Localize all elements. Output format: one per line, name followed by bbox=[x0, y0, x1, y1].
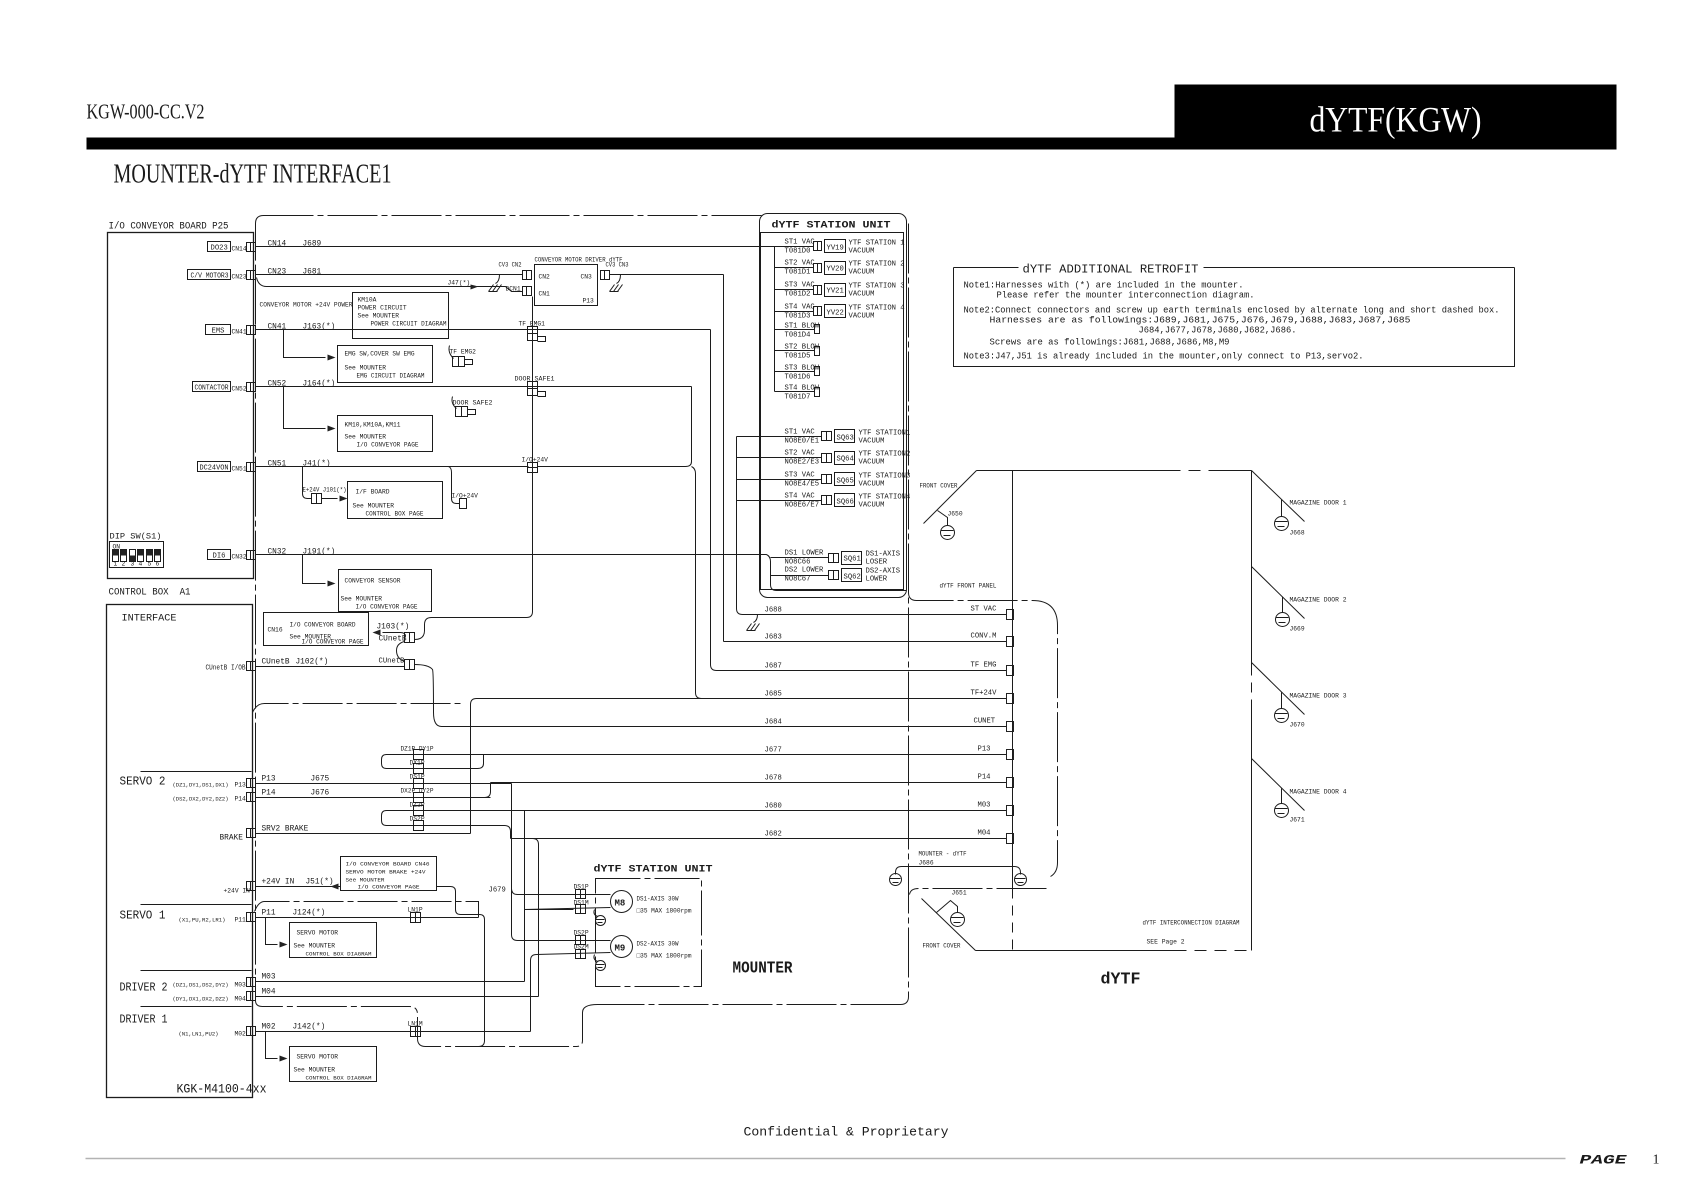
svg-text:4: 4 bbox=[139, 561, 143, 568]
svg-text:DOOR SAFE2: DOOR SAFE2 bbox=[453, 400, 493, 407]
row P14 servo2 bbox=[173, 790, 491, 803]
CN46 brake box bbox=[341, 857, 437, 891]
svg-text:CN23: CN23 bbox=[268, 269, 287, 277]
svg-text:dYTF STATION UNIT: dYTF STATION UNIT bbox=[594, 864, 713, 876]
svg-text:Note2:Connect connectors and s: Note2:Connect connectors and screw up ea… bbox=[964, 306, 1500, 316]
section separators bbox=[141, 771, 252, 773]
svg-text:I/O CONVEYOR PAGE: I/O CONVEYOR PAGE bbox=[357, 442, 419, 449]
svg-text:See MOUNTER: See MOUNTER bbox=[353, 503, 395, 510]
svg-text:(DZ1,DS1,DS2,DY2): (DZ1,DS1,DS2,DY2) bbox=[173, 982, 229, 989]
svg-text:YTF STATION4: YTF STATION4 bbox=[859, 494, 911, 502]
row DC24VON / CN51 bbox=[198, 461, 331, 473]
svg-text:SERVO MOTOR: SERVO MOTOR bbox=[297, 930, 339, 937]
wire DS1M bbox=[525, 908, 611, 910]
svg-text:CN32: CN32 bbox=[232, 554, 247, 561]
E+24V J101 branch bbox=[303, 467, 312, 499]
svg-text:J686: J686 bbox=[919, 860, 934, 867]
J41 open stub branch bbox=[449, 467, 460, 504]
svg-text:MAGAZINE DOOR 3: MAGAZINE DOOR 3 bbox=[1290, 693, 1347, 700]
svg-text:ST4 VAC: ST4 VAC bbox=[785, 304, 816, 312]
svg-text:ST3 VAC: ST3 VAC bbox=[785, 472, 816, 480]
BLOW rows bbox=[775, 247, 820, 402]
svg-text:NO8E2/E3: NO8E2/E3 bbox=[785, 459, 820, 467]
svg-text:MAGAZINE DOOR 2: MAGAZINE DOOR 2 bbox=[1290, 597, 1347, 604]
svg-text:P13: P13 bbox=[978, 746, 991, 754]
svg-text:CONVEYOR MOTOR +24V POWER: CONVEYOR MOTOR +24V POWER bbox=[260, 302, 353, 309]
wire DOOR SAFE loop bbox=[538, 387, 692, 467]
svg-text:NO8E0/E1: NO8E0/E1 bbox=[785, 438, 820, 446]
svg-text:T081D1: T081D1 bbox=[785, 269, 811, 277]
svg-text:J163(*): J163(*) bbox=[303, 324, 336, 332]
TF EMG2 stub bbox=[449, 346, 476, 367]
motor M9 DS2-AXIS bbox=[611, 936, 633, 958]
svg-text:YTF STATION 4: YTF STATION 4 bbox=[849, 305, 905, 313]
svg-text:CV3 CN3: CV3 CN3 bbox=[606, 262, 629, 269]
svg-text:M02: M02 bbox=[262, 1024, 276, 1032]
svg-text:M8: M8 bbox=[615, 899, 626, 909]
svg-text:J677: J677 bbox=[765, 747, 782, 755]
svg-text:□35 MAX 1800rpm: □35 MAX 1800rpm bbox=[637, 908, 692, 915]
svg-text:P13: P13 bbox=[583, 298, 595, 305]
svg-text:NO8C67: NO8C67 bbox=[785, 576, 811, 584]
svg-text:J684,J677,J678,J680,J682,J686.: J684,J677,J678,J680,J682,J686. bbox=[1139, 326, 1297, 336]
svg-text:YV19: YV19 bbox=[827, 245, 844, 253]
svg-text:EMS: EMS bbox=[212, 328, 225, 336]
svg-text:CONVEYOR SENSOR: CONVEYOR SENSOR bbox=[345, 578, 401, 585]
svg-text:MOUNTER-dYTF INTERFACE1: MOUNTER-dYTF INTERFACE1 bbox=[114, 159, 392, 189]
svg-text:P11: P11 bbox=[262, 910, 276, 918]
svg-text:VACUUM: VACUUM bbox=[859, 481, 885, 489]
wire J191 bbox=[256, 554, 767, 556]
svg-text:CONTROL BOX PAGE: CONTROL BOX PAGE bbox=[366, 511, 424, 518]
svg-text:M03: M03 bbox=[262, 974, 276, 982]
svg-text:M03: M03 bbox=[235, 982, 247, 989]
svg-text:I/O CONVEYOR PAGE: I/O CONVEYOR PAGE bbox=[358, 884, 420, 891]
svg-text:T081D7: T081D7 bbox=[785, 394, 811, 402]
svg-text:CN23: CN23 bbox=[232, 274, 247, 281]
svg-text:YV20: YV20 bbox=[827, 266, 844, 274]
svg-text:SERVO 2: SERVO 2 bbox=[120, 776, 166, 789]
svg-text:J142(*): J142(*) bbox=[293, 1024, 326, 1032]
svg-text:(DZ1,DY1,DS1,DX1): (DZ1,DY1,DS1,DX1) bbox=[173, 782, 229, 789]
svg-text:J680: J680 bbox=[765, 803, 782, 811]
svg-text:P14: P14 bbox=[262, 790, 276, 798]
svg-text:J681: J681 bbox=[303, 269, 322, 277]
svg-text:T081D3: T081D3 bbox=[785, 313, 811, 321]
svg-text:YV22: YV22 bbox=[827, 310, 844, 318]
SQ rows bbox=[785, 429, 911, 446]
svg-text:CN1: CN1 bbox=[539, 291, 551, 298]
board box bbox=[108, 221, 254, 579]
wire DS2P bbox=[518, 940, 611, 942]
svg-text:MAGAZINE DOOR 4: MAGAZINE DOOR 4 bbox=[1290, 789, 1347, 796]
svg-text:J682: J682 bbox=[765, 831, 782, 839]
riser P13->J679/DS2P bbox=[512, 784, 518, 941]
svg-text:J41(*): J41(*) bbox=[303, 461, 331, 469]
svg-text:I/F BOARD: I/F BOARD bbox=[356, 489, 390, 496]
svg-text:J102(*): J102(*) bbox=[296, 659, 329, 667]
svg-text:SQ65: SQ65 bbox=[837, 478, 854, 486]
wire J41 bbox=[256, 466, 529, 468]
svg-text:CUnetB I/OB: CUnetB I/OB bbox=[206, 665, 247, 673]
svg-text:TF EMG: TF EMG bbox=[971, 662, 997, 670]
svg-text:DO23: DO23 bbox=[211, 245, 228, 253]
svg-text:T081D5: T081D5 bbox=[785, 353, 811, 361]
row CONTACTOR / CN52 bbox=[193, 381, 336, 393]
svg-text:NO8C66: NO8C66 bbox=[785, 559, 811, 567]
svg-text:KM10,KM10A,KM11: KM10,KM10A,KM11 bbox=[345, 422, 401, 429]
svg-text:ST4 VAC: ST4 VAC bbox=[785, 493, 816, 501]
svg-text:INTERFACE: INTERFACE bbox=[122, 614, 177, 625]
svg-text:J51(*): J51(*) bbox=[306, 879, 334, 887]
svg-text:See MOUNTER: See MOUNTER bbox=[345, 365, 387, 372]
svg-text:MAGAZINE DOOR 1: MAGAZINE DOOR 1 bbox=[1290, 500, 1347, 507]
CONVEYOR SENSOR box bbox=[339, 570, 432, 612]
svg-text:+24V IN: +24V IN bbox=[262, 879, 295, 887]
svg-text:CN14: CN14 bbox=[268, 241, 287, 249]
svg-text:J124(*): J124(*) bbox=[293, 910, 326, 918]
svg-text:See MOUNTER: See MOUNTER bbox=[294, 1067, 336, 1074]
svg-text:T081D6: T081D6 bbox=[785, 374, 811, 382]
svg-text:DS2-AXIS: DS2-AXIS bbox=[866, 568, 901, 576]
svg-text:See MOUNTER: See MOUNTER bbox=[341, 596, 383, 603]
svg-text:EMG CIRCUIT DIAGRAM: EMG CIRCUIT DIAGRAM bbox=[357, 373, 425, 380]
svg-text:P14: P14 bbox=[235, 796, 247, 803]
svg-text:□35 MAX 1800rpm: □35 MAX 1800rpm bbox=[637, 953, 692, 960]
svg-text:P11: P11 bbox=[235, 917, 247, 924]
svg-text:KGK-M4100-4xx: KGK-M4100-4xx bbox=[177, 1082, 267, 1097]
EMS branch arrow bbox=[284, 330, 326, 358]
vertical bus CN1/TF EMG1/DOOR SAFE1/I⁄O+24V bbox=[532, 297, 534, 612]
svg-text:KGW-000-CC.V2: KGW-000-CC.V2 bbox=[87, 100, 205, 124]
svg-text:J164(*): J164(*) bbox=[303, 381, 336, 389]
svg-text:(N1,LN1,PU2): (N1,LN1,PU2) bbox=[179, 1031, 219, 1038]
magazine door 3 / earth J670 bbox=[1252, 663, 1347, 729]
svg-text:ST2 VAC: ST2 VAC bbox=[785, 260, 816, 268]
svg-text:J671: J671 bbox=[1290, 817, 1305, 824]
svg-text:J679: J679 bbox=[489, 887, 506, 895]
TF EMG1 bbox=[519, 321, 546, 342]
svg-text:DIP SW(S1): DIP SW(S1) bbox=[110, 534, 162, 542]
svg-text:Confidential & Proprietary: Confidential & Proprietary bbox=[744, 1125, 949, 1140]
svg-text:J47(*): J47(*) bbox=[448, 280, 471, 287]
contactor runs to J685 via x695 bbox=[692, 467, 702, 699]
I/O+24V connector on vertical bbox=[522, 457, 549, 473]
SERVO MOTOR box 1 bbox=[290, 923, 377, 958]
svg-text:M04: M04 bbox=[235, 996, 247, 1003]
svg-text:NO8E6/E7: NO8E6/E7 bbox=[785, 502, 820, 510]
svg-text:CN51: CN51 bbox=[232, 466, 247, 473]
svg-text:VACUUM: VACUUM bbox=[849, 291, 875, 299]
svg-text:LOWER: LOWER bbox=[866, 576, 888, 584]
J103 arrow wire + CUnetB connectors bbox=[373, 612, 533, 727]
J191 bus to DS rows bbox=[767, 555, 907, 591]
svg-text:YTF STATION3: YTF STATION3 bbox=[859, 473, 911, 481]
svg-text:P13: P13 bbox=[235, 782, 247, 789]
svg-text:CONTROL BOX DIAGRAM: CONTROL BOX DIAGRAM bbox=[306, 1075, 372, 1082]
svg-text:CN52: CN52 bbox=[232, 386, 247, 393]
svg-text:CONTROL BOX A1: CONTROL BOX A1 bbox=[109, 588, 191, 599]
magazine door 2 / earth J669 bbox=[1252, 567, 1347, 633]
svg-text:(X1,PU,R2,LR1): (X1,PU,R2,LR1) bbox=[179, 917, 226, 924]
svg-text:I/O CONVEYOR PAGE: I/O CONVEYOR PAGE bbox=[356, 604, 418, 611]
wire J689 bbox=[256, 246, 814, 248]
svg-text:CONTROL BOX DIAGRAM: CONTROL BOX DIAGRAM bbox=[306, 951, 372, 958]
svg-text:M04: M04 bbox=[262, 989, 276, 997]
svg-text:DI6: DI6 bbox=[213, 553, 226, 561]
riser M03 bbox=[524, 811, 526, 982]
svg-text:SQ61: SQ61 bbox=[844, 556, 861, 564]
svg-text:E+24V J101(*): E+24V J101(*) bbox=[303, 487, 347, 494]
row BRAKE bbox=[220, 699, 477, 843]
svg-text:TF EMG2: TF EMG2 bbox=[450, 349, 477, 356]
wire DS2M bbox=[537, 953, 611, 955]
svg-text:I/O CONVEYOR PAGE: I/O CONVEYOR PAGE bbox=[302, 639, 364, 646]
svg-text:J683: J683 bbox=[765, 634, 782, 642]
svg-text:J670: J670 bbox=[1290, 722, 1305, 729]
svg-text:ST3 VAC: ST3 VAC bbox=[785, 282, 816, 290]
front cover bottom bbox=[922, 890, 976, 951]
svg-text:M04: M04 bbox=[978, 830, 991, 838]
conveyor motor driver box bbox=[506, 257, 623, 306]
svg-text:DCN1: DCN1 bbox=[506, 286, 521, 293]
svg-text:CONTACTOR: CONTACTOR bbox=[195, 385, 230, 393]
svg-text:CUnetB: CUnetB bbox=[379, 658, 406, 666]
svg-text:M02: M02 bbox=[235, 1031, 247, 1038]
svg-text:CONV.M: CONV.M bbox=[971, 633, 997, 641]
magazine door 4 / earth J671 bbox=[1252, 759, 1347, 824]
row DO23 / CN14 bbox=[208, 241, 322, 253]
row P11 servo1 bbox=[179, 902, 479, 948]
svg-text:CN32: CN32 bbox=[268, 549, 287, 557]
svg-text:SQ66: SQ66 bbox=[837, 499, 854, 507]
svg-text:SQ62: SQ62 bbox=[844, 574, 861, 582]
svg-text:YTF STATION 2: YTF STATION 2 bbox=[849, 261, 905, 269]
front cover top bbox=[920, 471, 977, 540]
svg-text:I/O CONVEYOR BOARD CN46: I/O CONVEYOR BOARD CN46 bbox=[346, 861, 430, 868]
svg-text:MOUNTER: MOUNTER bbox=[733, 959, 793, 978]
MOUNTER - dYTF J686 earth staple bbox=[890, 851, 1027, 886]
svg-text:ST VAC: ST VAC bbox=[971, 606, 998, 614]
riser CN3 to J683 bbox=[723, 275, 725, 642]
row M02 driver1 bbox=[179, 1021, 531, 1062]
svg-text:CUnetB: CUnetB bbox=[262, 659, 290, 667]
magazine door 1 / earth J668 bbox=[1252, 471, 1347, 537]
row M04 bbox=[173, 989, 539, 1003]
svg-text:I/O CONVEYOR BOARD P25: I/O CONVEYOR BOARD P25 bbox=[109, 221, 229, 233]
svg-text:CN2: CN2 bbox=[539, 274, 551, 281]
svg-text:J651: J651 bbox=[952, 890, 967, 897]
chain jog parallel to J685 bbox=[253, 704, 461, 713]
YV rows bbox=[785, 239, 905, 256]
svg-text:T081D0: T081D0 bbox=[785, 248, 811, 256]
svg-text:6: 6 bbox=[156, 561, 160, 568]
svg-text:3: 3 bbox=[131, 561, 135, 568]
wire EMS -> J687 riser bbox=[256, 329, 711, 331]
svg-text:T081D4: T081D4 bbox=[785, 332, 811, 340]
panel connector stubs bbox=[1007, 610, 1014, 844]
chain jog to front panel connectors bbox=[909, 593, 1058, 895]
svg-text:J685: J685 bbox=[765, 691, 782, 699]
svg-text:SRV2 BRAKE: SRV2 BRAKE bbox=[262, 826, 309, 834]
row EMS / CN41 bbox=[206, 324, 336, 336]
svg-text:FRONT COVER: FRONT COVER bbox=[920, 483, 958, 490]
wire J47 to DCN1 bbox=[257, 278, 523, 292]
DOOR SAFE1 bbox=[515, 376, 555, 397]
svg-text:J688: J688 bbox=[765, 607, 782, 615]
svg-text:LOSER: LOSER bbox=[866, 559, 888, 567]
svg-text:VACUUM: VACUUM bbox=[859, 502, 885, 510]
SERVO MOTOR box 2 bbox=[290, 1047, 377, 1082]
svg-text:DS1-AXIS: DS1-AXIS bbox=[866, 551, 901, 559]
svg-text:J676: J676 bbox=[311, 790, 330, 798]
svg-text:VACUUM: VACUUM bbox=[849, 248, 875, 256]
motor M8 DS1-AXIS bbox=[611, 891, 633, 913]
wire J681 bbox=[256, 274, 523, 276]
svg-text:YV21: YV21 bbox=[827, 288, 844, 296]
svg-text:SERVO 1: SERVO 1 bbox=[120, 910, 166, 923]
svg-text:5: 5 bbox=[148, 561, 152, 568]
svg-text:PAGE: PAGE bbox=[1580, 1153, 1629, 1168]
svg-text:TF+24V: TF+24V bbox=[971, 690, 998, 698]
row CUnetB I/OB bbox=[206, 658, 406, 673]
svg-text:1: 1 bbox=[1653, 1153, 1660, 1168]
svg-text:DS2P: DS2P bbox=[410, 816, 425, 823]
svg-text:ST1 VAC: ST1 VAC bbox=[785, 429, 816, 437]
svg-text:VACUUM: VACUUM bbox=[849, 269, 875, 277]
svg-text:M03: M03 bbox=[978, 802, 991, 810]
row DI6 / CN32 bbox=[208, 549, 336, 561]
svg-text:C/V MOTOR3: C/V MOTOR3 bbox=[191, 273, 229, 281]
svg-text:SQ64: SQ64 bbox=[837, 456, 854, 464]
svg-text:J650: J650 bbox=[948, 511, 963, 518]
DOOR SAFE2 stub bbox=[452, 397, 493, 417]
svg-text:DS2 LOWER: DS2 LOWER bbox=[785, 567, 825, 575]
svg-text:FRONT COVER: FRONT COVER bbox=[923, 943, 961, 950]
svg-text:YTF STATION2: YTF STATION2 bbox=[859, 451, 911, 459]
svg-text:dYTF INTERCONNECTION DIAGRAM: dYTF INTERCONNECTION DIAGRAM bbox=[1143, 920, 1240, 927]
svg-text:YTF STATION 3: YTF STATION 3 bbox=[849, 283, 905, 291]
svg-text:M9: M9 bbox=[615, 944, 626, 954]
riser M04 bbox=[533, 839, 539, 997]
svg-text:J675: J675 bbox=[311, 776, 330, 784]
I/F BOARD box bbox=[348, 482, 443, 519]
svg-text:J678: J678 bbox=[765, 775, 782, 783]
svg-text:P13: P13 bbox=[262, 776, 276, 784]
svg-text:SEE Page 2: SEE Page 2 bbox=[1147, 939, 1185, 946]
svg-text:BRAKE: BRAKE bbox=[220, 835, 244, 843]
KM10A power circuit box bbox=[353, 293, 449, 339]
svg-text:DS1-AXIS 30W: DS1-AXIS 30W bbox=[637, 896, 679, 903]
svg-text:I/O CONVEYOR BOARD: I/O CONVEYOR BOARD bbox=[290, 622, 356, 629]
svg-text:CN41: CN41 bbox=[232, 329, 247, 336]
svg-text:DS1 LOWER: DS1 LOWER bbox=[785, 550, 825, 558]
svg-text:(DY1,DX1,DX2,DZ2): (DY1,DX1,DX2,DZ2) bbox=[173, 996, 229, 1003]
wire CONTACTOR -> door loop bbox=[256, 386, 692, 388]
svg-text:EMG SW,COVER SW EMG: EMG SW,COVER SW EMG bbox=[345, 351, 415, 358]
svg-text:CN16: CN16 bbox=[268, 627, 283, 634]
svg-text:J103(*): J103(*) bbox=[377, 624, 410, 632]
KM10 box bbox=[338, 416, 433, 452]
row +24V IN bbox=[224, 879, 485, 1047]
stack right-side joins bbox=[424, 754, 484, 756]
svg-text:CV3 CN2: CV3 CN2 bbox=[499, 262, 522, 269]
svg-text:DC24VON: DC24VON bbox=[200, 465, 229, 473]
svg-text:CUNET: CUNET bbox=[974, 718, 996, 726]
svg-text:Note3:J47,J51 is already inclu: Note3:J47,J51 is already included in the… bbox=[964, 352, 1364, 362]
svg-text:Note1:Harnesses with (*) are i: Note1:Harnesses with (*) are included in… bbox=[964, 281, 1244, 291]
svg-text:See MOUNTER: See MOUNTER bbox=[345, 434, 387, 441]
svg-text:dYTF(KGW): dYTF(KGW) bbox=[1310, 100, 1482, 140]
svg-text:J191(*): J191(*) bbox=[303, 549, 336, 557]
svg-text:J689: J689 bbox=[303, 241, 322, 249]
svg-text:ST1 VAC: ST1 VAC bbox=[785, 239, 816, 247]
svg-text:POWER CIRCUIT: POWER CIRCUIT bbox=[358, 305, 407, 312]
svg-text:CN14: CN14 bbox=[232, 246, 247, 253]
svg-text:J687: J687 bbox=[765, 663, 782, 671]
CN16 box bbox=[264, 613, 369, 646]
svg-text:P14: P14 bbox=[978, 774, 991, 782]
svg-text:MOUNTER - dYTF: MOUNTER - dYTF bbox=[919, 851, 967, 858]
row P13 servo2 bbox=[173, 776, 512, 789]
svg-text:DRIVER 2: DRIVER 2 bbox=[120, 982, 168, 995]
svg-text:CN3: CN3 bbox=[581, 274, 593, 281]
row M03 bbox=[173, 974, 525, 989]
svg-text:J684: J684 bbox=[765, 719, 782, 727]
svg-text:Harnesses are as followings:J6: Harnesses are as followings:J689,J681,J6… bbox=[990, 316, 1411, 326]
svg-text:CN51: CN51 bbox=[268, 461, 287, 469]
DIP SW(S1) bbox=[110, 534, 164, 568]
svg-text:VACUUM: VACUUM bbox=[849, 313, 875, 321]
svg-text:See MOUNTER: See MOUNTER bbox=[294, 943, 336, 950]
DS rows bbox=[785, 550, 901, 567]
svg-text:J668: J668 bbox=[1290, 530, 1305, 537]
svg-text:I/O+24V: I/O+24V bbox=[452, 493, 479, 500]
svg-text:VACUUM: VACUUM bbox=[859, 459, 885, 467]
row C/V MOTOR3 / CN23 bbox=[188, 269, 322, 281]
svg-text:See MOUNTER: See MOUNTER bbox=[346, 877, 385, 884]
svg-text:Please refer the mounter inter: Please refer the mounter interconnection… bbox=[997, 291, 1255, 301]
svg-text:dYTF FRONT PANEL: dYTF FRONT PANEL bbox=[940, 583, 997, 590]
svg-text:J669: J669 bbox=[1290, 626, 1305, 633]
svg-text:dYTF STATION UNIT: dYTF STATION UNIT bbox=[772, 220, 891, 232]
EMG SW box bbox=[338, 346, 433, 383]
svg-text:1: 1 bbox=[114, 561, 118, 568]
svg-text:YTF STATION1: YTF STATION1 bbox=[859, 430, 911, 438]
svg-text:DS1P: DS1P bbox=[410, 774, 425, 781]
riser EMS to J687 bbox=[711, 330, 717, 671]
svg-text:SERVO MOTOR BRAKE +24V: SERVO MOTOR BRAKE +24V bbox=[346, 869, 426, 876]
svg-text:2: 2 bbox=[122, 561, 126, 568]
svg-text:See MOUNTER: See MOUNTER bbox=[358, 313, 400, 320]
svg-text:VACUUM: VACUUM bbox=[859, 438, 885, 446]
svg-text:DRIVER 1: DRIVER 1 bbox=[120, 1014, 168, 1027]
svg-text:(DS2,DX2,DY2,DZ2): (DS2,DX2,DY2,DZ2) bbox=[173, 796, 229, 803]
svg-text:dYTF ADDITIONAL RETROFIT: dYTF ADDITIONAL RETROFIT bbox=[1023, 264, 1199, 277]
svg-text:NO8E4/E5: NO8E4/E5 bbox=[785, 481, 820, 489]
svg-text:SQ63: SQ63 bbox=[837, 435, 854, 443]
svg-text:SERVO MOTOR: SERVO MOTOR bbox=[297, 1054, 339, 1061]
svg-text:ST2 VAC: ST2 VAC bbox=[785, 450, 816, 458]
svg-text:KM10A: KM10A bbox=[358, 297, 377, 304]
riser M02 bbox=[531, 955, 537, 1032]
svg-text:T081D2: T081D2 bbox=[785, 291, 811, 299]
svg-text:POWER CIRCUIT DIAGRAM: POWER CIRCUIT DIAGRAM bbox=[371, 321, 447, 328]
svg-text:dYTF: dYTF bbox=[1101, 970, 1141, 989]
svg-text:YTF STATION 1: YTF STATION 1 bbox=[849, 240, 905, 248]
svg-text:DS2-AXIS 30W: DS2-AXIS 30W bbox=[637, 941, 679, 948]
svg-text:Screws are as followings:J681,: Screws are as followings:J681,J688,J686,… bbox=[990, 338, 1230, 348]
